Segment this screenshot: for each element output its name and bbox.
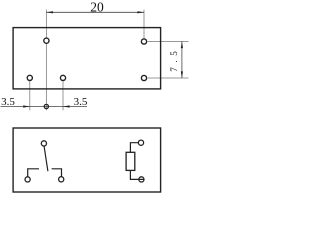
extension line: vertical from 20-dim to right-top pin [143, 10, 145, 39]
coil bottom terminal circle [139, 177, 144, 182]
coil top wire [130, 143, 138, 153]
switch armature wire [44, 146, 48, 171]
svg-text:20: 20 [90, 0, 104, 15]
svg-text:7.5: 7.5 [169, 47, 179, 72]
dimension line 7.5 [181, 42, 183, 79]
pin hole bottom-left [27, 75, 32, 80]
extension line: vertical through top-middle pin down to 3.5 dim line [45, 10, 47, 111]
arrowhead top of 7.5 dim [181, 42, 183, 49]
pin hole bottom-right [60, 75, 65, 80]
extension line: vertical below bottom-right pin [62, 81, 64, 110]
svg-text:3.5: 3.5 [74, 96, 88, 108]
extension line: horizontal from right-top pin to 7.5 dim [148, 41, 189, 43]
relay body outline (top view) [13, 28, 161, 89]
pin hole right-bottom [141, 75, 146, 80]
schematic box outline (bottom view) [13, 128, 161, 192]
svg-text:3.5: 3.5 [1, 96, 15, 108]
left contact wire [28, 169, 39, 177]
dimension line 3.5 left tail [1, 106, 30, 108]
coil bottom wire (passes through terminal) [130, 170, 143, 179]
left contact terminal circle [25, 177, 30, 182]
pin hole right-top [141, 39, 146, 44]
coil rectangle [126, 152, 135, 170]
dimension line between 3.5 extension lines [30, 106, 63, 108]
arrowhead pointing left at right 3.5 [63, 105, 70, 107]
right contact terminal circle [59, 177, 64, 182]
dimension line 3.5 right tail [63, 106, 87, 108]
coil top terminal circle [138, 140, 143, 145]
extension line: vertical below bottom-left pin [29, 81, 31, 110]
switch common terminal circle [41, 141, 46, 146]
dimension line 20 [46, 11, 144, 13]
arrowhead left of 20 dim [46, 11, 53, 13]
arrowhead pointing right at left 3.5 [23, 105, 30, 107]
right contact wire [52, 169, 62, 177]
arrowhead bottom of 7.5 dim [181, 71, 183, 78]
arrowhead right of 20 dim [137, 11, 144, 13]
center datum mark circle on 3.5 dim line [44, 104, 48, 108]
extension line: horizontal from right-bottom pin to 7.5 dim [148, 77, 189, 79]
pin hole top-middle [44, 38, 49, 43]
